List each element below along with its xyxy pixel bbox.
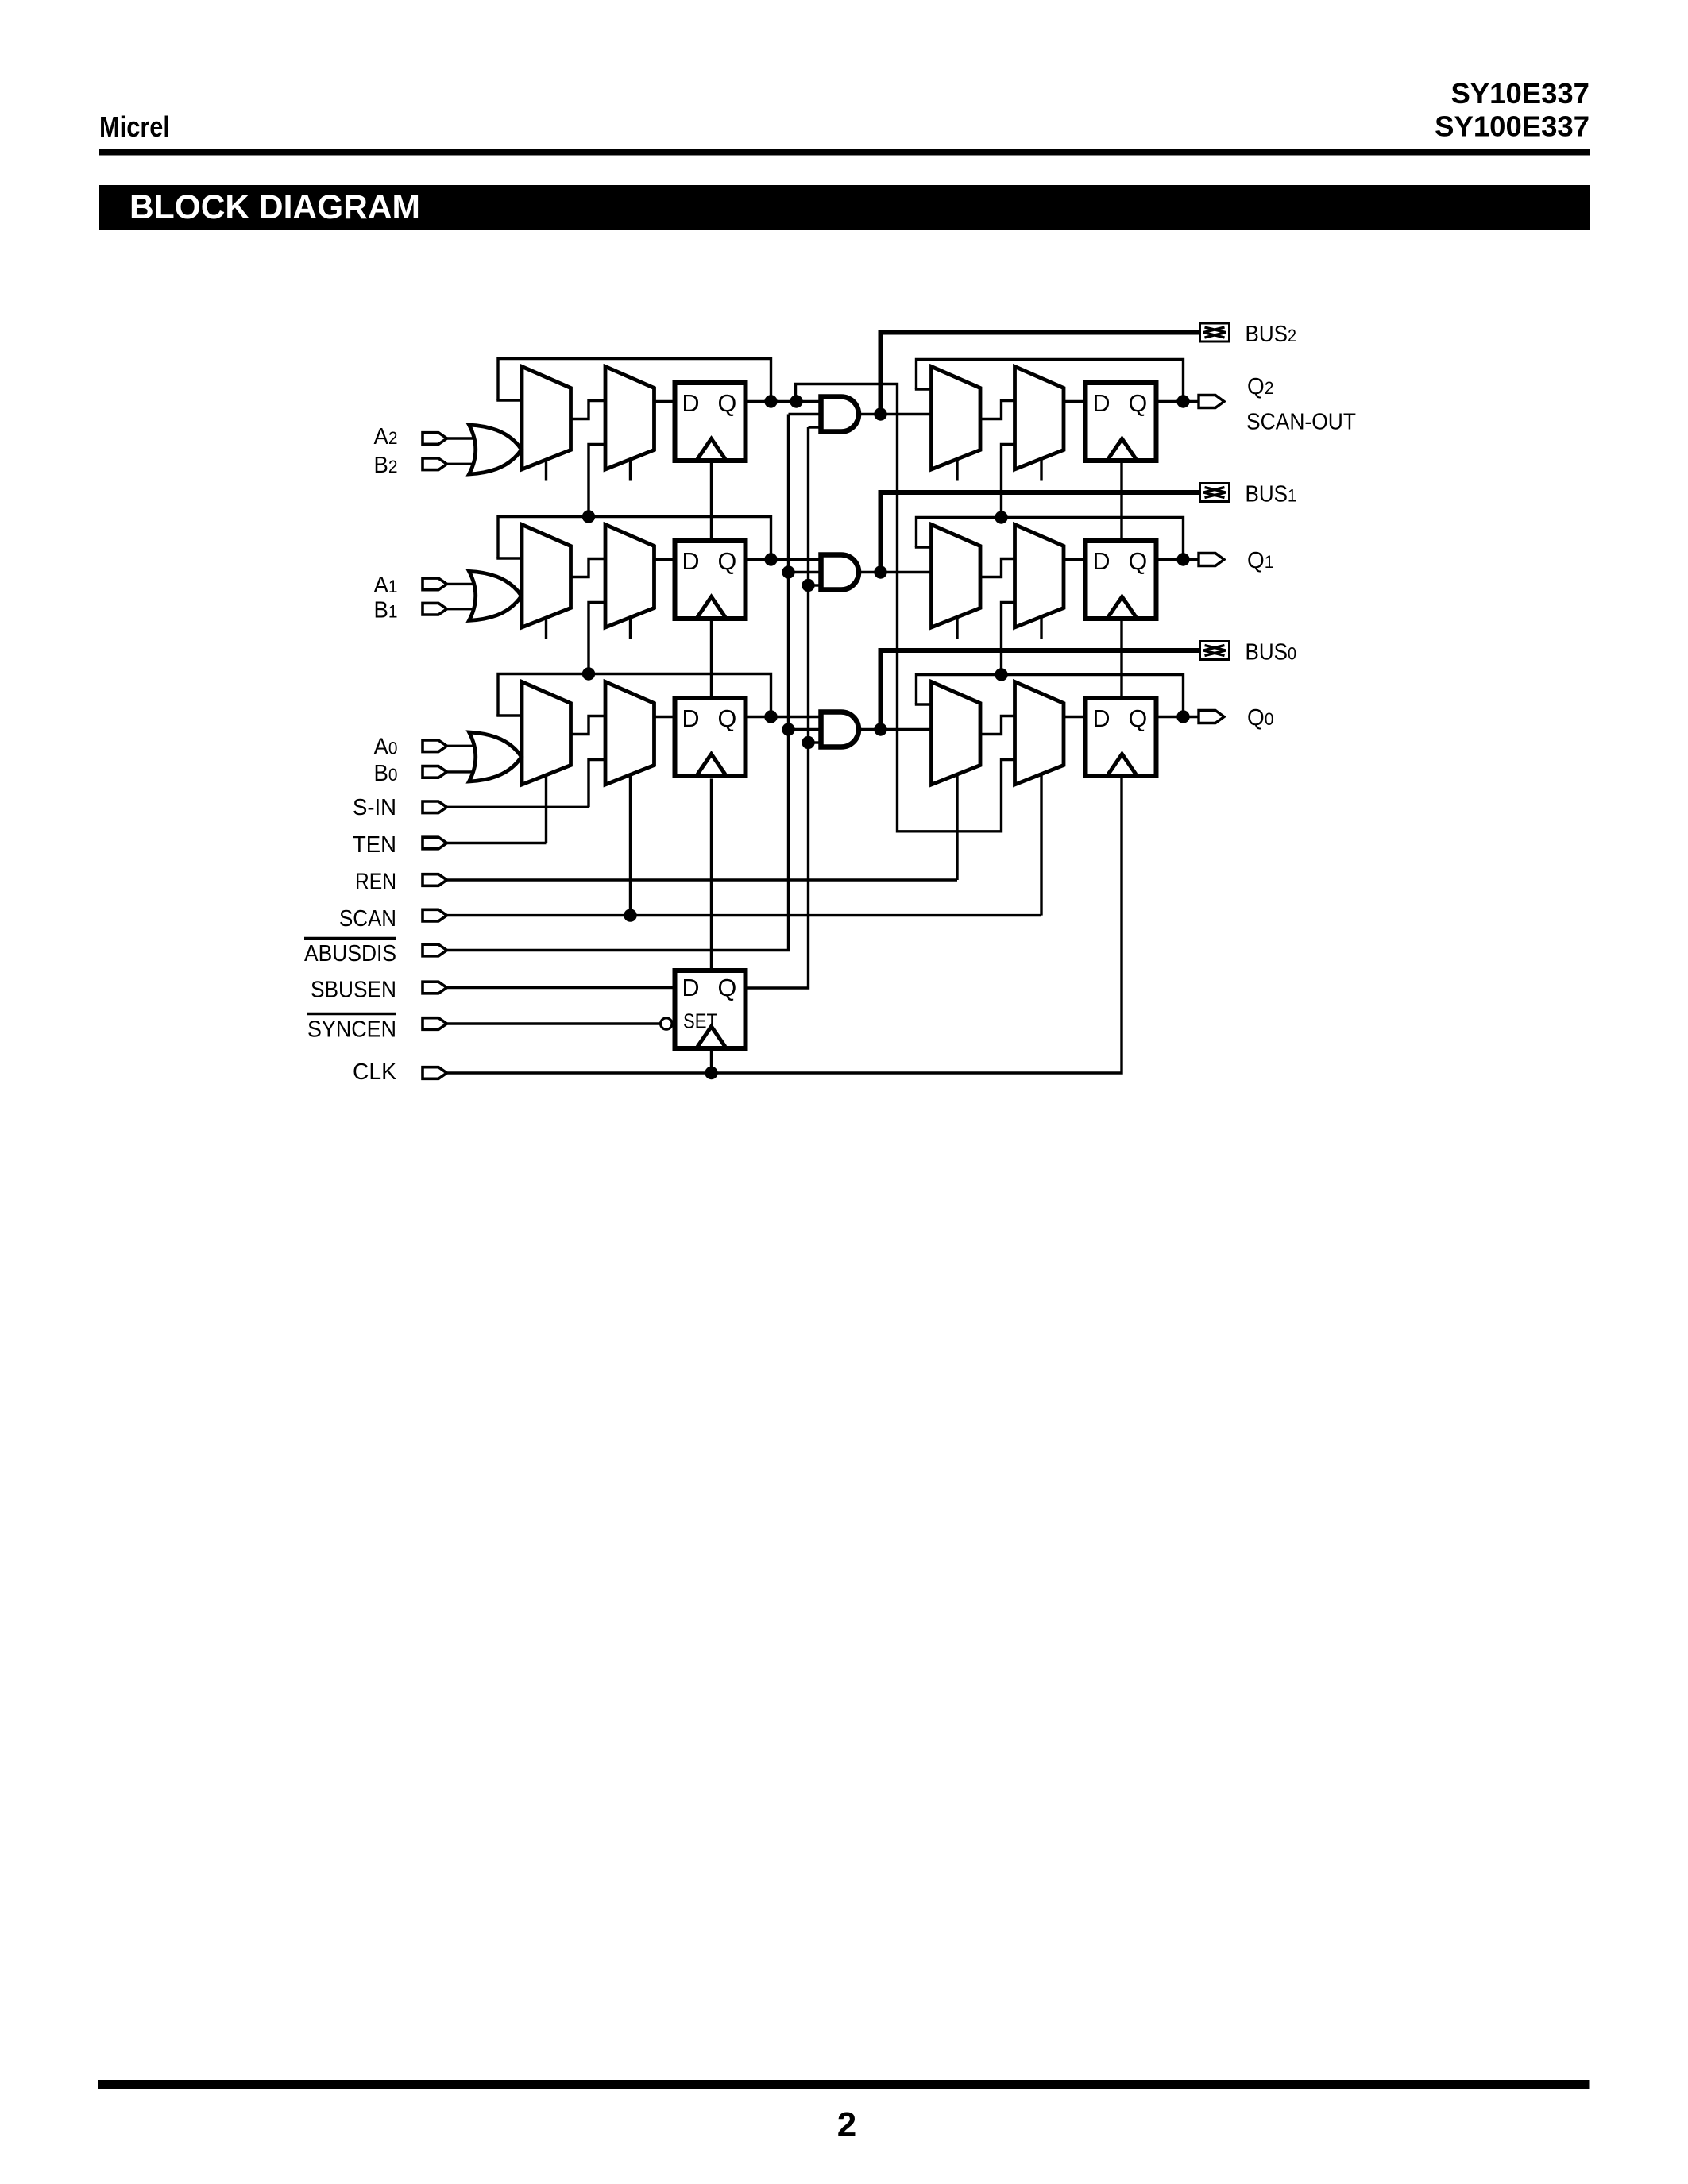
junction SBUSEN rail row 1 (802, 579, 814, 592)
junction ABUSDIS rail row 1 (782, 565, 794, 578)
wire B0 to OR gate (447, 770, 477, 773)
svg-text:S-IN: S-IN (353, 795, 396, 820)
latch T2C enable pin stub (956, 460, 958, 481)
wire feedback into latch T2C (915, 388, 932, 390)
svg-text:BUS0: BUS0 (1246, 640, 1297, 666)
wire B2 to OR gate (447, 463, 477, 465)
wire SBUSEN-FF Q into AND G1 (809, 584, 821, 586)
section title bar BLOCK DIAGRAM (99, 185, 1590, 230)
input pin REN (423, 874, 447, 886)
flip-flop FF2L (row 2 register) (675, 383, 746, 461)
output pin Q0 (1199, 711, 1224, 723)
svg-text:A1: A1 (374, 573, 398, 598)
wire SCAN (447, 914, 1042, 916)
flip-flop FF0L (row 0 register) (675, 698, 746, 776)
wire feedback into latch T2A (496, 399, 522, 401)
svg-text:SCAN-OUT: SCAN-OUT (1246, 410, 1356, 435)
wire ABUSDIS gating into AND G1 (789, 571, 821, 573)
input pin A1 (423, 578, 447, 590)
latch T2D enable pin stub (1040, 460, 1042, 481)
svg-text:D: D (1093, 548, 1111, 575)
input pin B1 (423, 603, 447, 615)
output pin Q2 (1199, 396, 1224, 408)
junction Q0 feedback tap (764, 710, 777, 723)
latch T1A (row 1 input latch) (522, 525, 571, 628)
latch T1C enable pin stub (956, 618, 958, 639)
svg-text:SY100E337: SY100E337 (1435, 110, 1590, 143)
flip-flop FF1R (row 1 bus register) (1086, 541, 1157, 619)
latch T2C (row 2 bus input latch) (932, 367, 981, 470)
input pin A2 (423, 433, 447, 445)
wire ABUSDIS to AND rail (447, 415, 789, 951)
wire Q2 output line (748, 400, 821, 403)
wire Q0 output line (748, 716, 821, 718)
input pin ABUSDIS (active low) (423, 944, 447, 956)
junction CLK to FF-SB (705, 1067, 717, 1079)
wire feedback into latch T0A (496, 714, 522, 716)
latch T2D (row 2 bus hold latch) (1015, 367, 1064, 470)
input pin S-IN (423, 801, 447, 813)
AND gate G1 (bus driver gate) (821, 555, 859, 590)
flip-flop FF1L (row 1 register) (675, 541, 746, 619)
bidirectional pad BUS0 (1200, 642, 1230, 660)
wire T2A output to T2B input (571, 401, 606, 419)
latch T1D enable pin stub (1040, 618, 1042, 639)
junction right feedback tap row 2 (1176, 395, 1189, 407)
overline ABUSDIS (304, 937, 396, 940)
wire REN (447, 878, 958, 881)
svg-text:A2: A2 (374, 424, 398, 450)
wire right row0 rail feed to T1D (1002, 603, 1015, 675)
wire feedback Q1 top rail (left register) (498, 517, 771, 559)
OR gate O1 (A1+B1) (469, 571, 522, 620)
svg-text:Q: Q (1129, 548, 1148, 575)
wire feedback top rail (right bus register row 2) (917, 360, 1184, 398)
wire Q2 to output pin (1159, 400, 1199, 403)
wire BUS1 stub (881, 492, 1200, 573)
input pin B2 (423, 458, 447, 470)
svg-text:D: D (682, 974, 700, 1001)
wire T1B output to FF1L D input (655, 558, 673, 561)
svg-text:Q0: Q0 (1247, 705, 1274, 731)
wire SBUSEN-FF Q into AND G2 (809, 426, 821, 428)
latch T1B (row 1 scan/hold latch) (605, 525, 655, 628)
latch T2B (row 2 scan/hold latch) (605, 367, 655, 470)
svg-text:SET: SET (683, 1011, 717, 1033)
svg-text:A0: A0 (374, 735, 398, 760)
wire G1 output to bus node (859, 571, 932, 573)
wire SBUSEN-FF Q into AND G0 (809, 741, 821, 743)
wire Q0 to output pin (1159, 716, 1199, 718)
svg-text:SY10E337: SY10E337 (1450, 77, 1590, 110)
wire ABUSDIS gating into AND G0 (789, 728, 821, 731)
junction SBUSEN rail row 0 (802, 736, 814, 749)
wire BUS0 stub (881, 650, 1200, 730)
input pin A0 (423, 740, 447, 752)
junction scan tap on row 1 rail (582, 510, 595, 523)
svg-text:Q1: Q1 (1247, 548, 1274, 573)
svg-text:TEN: TEN (353, 832, 396, 858)
latch T1D (row 1 bus hold latch) (1015, 525, 1064, 628)
svg-text:BLOCK DIAGRAM: BLOCK DIAGRAM (129, 189, 420, 226)
junction Q2 scan-wrap tap (790, 395, 802, 407)
wire Q1 output line (748, 558, 821, 561)
svg-text:BUS1: BUS1 (1246, 482, 1297, 507)
wire T0C output to T0D input (980, 716, 1015, 735)
latch T0A enable pin to TEN (545, 775, 547, 843)
latch T1C (row 1 bus input latch) (932, 525, 981, 628)
latch T2B enable pin stub (629, 460, 632, 481)
svg-text:Q2: Q2 (1247, 374, 1274, 399)
wire BUS2 stub (881, 333, 1200, 415)
svg-text:B1: B1 (374, 598, 398, 623)
svg-text:Q: Q (718, 390, 737, 417)
input pin CLK (423, 1067, 447, 1079)
svg-text:Q: Q (718, 974, 737, 1001)
inverter bubble on SET input (661, 1018, 672, 1029)
wire feedback top rail (right bus register row 1) (917, 518, 1184, 556)
junction right rail tap row 0 (995, 668, 1007, 681)
flip-flop FF2R (row 2 bus register) (1086, 383, 1157, 461)
wire S-IN feed to T0B (589, 760, 605, 808)
svg-text:D: D (1093, 390, 1111, 417)
svg-text:Micrel: Micrel (99, 110, 170, 143)
wire feedback Q0 top rail (left register) (498, 674, 771, 716)
latch T0B (row 0 scan/hold latch) (605, 682, 655, 785)
OR gate O0 (A0+B0) (469, 732, 522, 781)
svg-text:Q: Q (1129, 390, 1148, 417)
wire B1 to OR gate (447, 608, 477, 610)
wire FF-SB Q to AND rail (748, 427, 809, 988)
junction BUS1 node (874, 565, 886, 578)
wire Q2 route to T0B-right lower port (scan wrap) (796, 384, 1015, 832)
flip-flop FF0R (row 0 bus register) (1086, 698, 1157, 776)
wire T2C output to T2D input (980, 401, 1015, 419)
latch T1B enable pin stub (629, 618, 632, 639)
svg-text:Q: Q (1129, 705, 1148, 732)
footer rule (98, 2080, 1590, 2089)
svg-text:BUS2: BUS2 (1246, 322, 1297, 347)
wire ABUSDIS gating into AND G2 (789, 413, 821, 415)
svg-text:SYNCEN: SYNCEN (307, 1017, 396, 1042)
latch T0C (row 0 bus input latch) (932, 682, 981, 785)
wire right row1 rail feed to T2D (1002, 445, 1015, 518)
wire G2 output to bus node (859, 413, 932, 415)
junction Q1 feedback tap (764, 553, 777, 565)
latch T2A enable pin stub (545, 460, 547, 481)
svg-text:B2: B2 (374, 453, 398, 478)
wire SBUSEN to FF-SB D (447, 986, 673, 989)
junction right rail tap row 1 (995, 511, 1007, 523)
svg-text:CLK: CLK (353, 1059, 397, 1085)
latch T1A enable pin stub (545, 618, 547, 639)
wire G0 output to bus node (859, 728, 932, 731)
svg-text:D: D (682, 548, 700, 575)
wire Q1 scan feed to T2B (589, 445, 605, 517)
svg-text:Q: Q (718, 548, 737, 575)
wire T1D output to FF1R D input (1064, 558, 1083, 561)
latch T2A (row 2 input latch) (522, 367, 571, 470)
svg-text:D: D (682, 390, 700, 417)
input pin SBUSEN (423, 982, 447, 994)
header rule (99, 149, 1590, 156)
junction right feedback tap row 1 (1176, 553, 1189, 565)
svg-text:2: 2 (837, 2105, 856, 2144)
input pin SYNCEN (active low) (423, 1018, 447, 1030)
svg-text:D: D (1093, 705, 1111, 732)
bidirectional pad BUS2 (1200, 323, 1230, 341)
input pin SCAN (423, 909, 447, 921)
svg-text:SBUSEN: SBUSEN (311, 978, 396, 1003)
wire SYNCEN to SET bubble (447, 1022, 661, 1024)
AND gate G2 (bus driver gate) (821, 397, 859, 432)
wire feedback top rail (right bus register row 0) (917, 675, 1184, 713)
wire feedback into latch T1C (915, 546, 932, 548)
wire T0A output to T0B input (571, 716, 606, 735)
svg-text:REN: REN (355, 870, 396, 895)
svg-text:B0: B0 (374, 761, 398, 786)
junction Q2 feedback tap (764, 395, 777, 407)
latch T0D enable pin to SCAN (1040, 775, 1042, 916)
junction BUS2 node (874, 407, 886, 420)
wire T0D output to FF0R D input (1064, 716, 1083, 718)
wire T2B output to FF2L D input (655, 400, 673, 403)
latch T0B enable pin to SCAN (629, 775, 632, 916)
latch T0D (row 0 bus hold latch) (1015, 682, 1064, 785)
wire A2 to OR gate (447, 437, 477, 439)
wire Q1 to output pin (1159, 558, 1199, 561)
svg-text:ABUSDIS: ABUSDIS (304, 941, 396, 967)
wire TEN (447, 842, 547, 844)
latch T0C enable pin to REN (956, 775, 958, 881)
AND gate G0 (bus driver gate) (821, 712, 859, 747)
junction scan tap on row 0 rail (582, 667, 595, 680)
wire T0B output to FF0L D input (655, 716, 673, 718)
junction BUS0 node (874, 723, 886, 735)
wire clock chain right column (1120, 463, 1122, 538)
junction T0B enable pin on SCAN line (624, 909, 636, 921)
OR gate O2 (A2+B2) (469, 425, 522, 474)
svg-text:Q: Q (718, 705, 737, 732)
wire T1C output to T1D input (980, 559, 1015, 577)
wire T2D output to FF2R D input (1064, 400, 1083, 403)
wire feedback into latch T1A (496, 557, 522, 559)
wire Q0 scan feed to T1B (589, 603, 605, 674)
svg-text:D: D (682, 705, 700, 732)
wire feedback Q2 top rail (left register) (498, 359, 771, 401)
bidirectional pad BUS1 (1200, 484, 1230, 502)
wire A1 to OR gate (447, 583, 477, 585)
latch T0A (row 0 input latch) (522, 682, 571, 785)
wire S-IN (447, 806, 589, 808)
wire clock chain left column (710, 463, 713, 538)
input pin TEN (423, 837, 447, 849)
wire A0 to OR gate (447, 745, 477, 747)
flip-flop FF-SB (SBUSEN sync register with SET) (675, 970, 746, 1048)
wire T1A output to T1B input (571, 559, 606, 577)
junction ABUSDIS rail row 0 (782, 723, 794, 735)
input pin B0 (423, 766, 447, 778)
junction right feedback tap row 0 (1176, 710, 1189, 723)
wire CLK distribution (447, 778, 1122, 1073)
output pin Q1 (1199, 554, 1224, 566)
wire feedback into latch T0C (915, 703, 932, 705)
svg-text:SCAN: SCAN (339, 906, 396, 932)
overline SYNCEN (307, 1013, 396, 1016)
